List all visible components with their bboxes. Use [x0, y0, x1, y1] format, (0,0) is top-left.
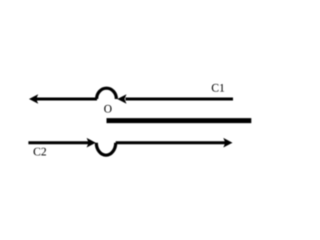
arrowhead: C2 right tip (points right)	[223, 138, 232, 148]
wire: contour C2 right segment	[116, 141, 226, 144]
arrowhead: C1 far-left tip (points left)	[29, 94, 38, 104]
arrowhead: C2 middle (points right, left of hop)	[87, 138, 96, 148]
wire: contour C2 left segment	[28, 141, 90, 144]
wire: contour C2 hop under rod end	[96, 143, 115, 155]
conductor: thick semi-infinite rod from O	[107, 118, 252, 123]
wire: contour C1 right segment	[126, 98, 234, 101]
label C2	[34, 148, 46, 156]
label C1	[212, 84, 224, 92]
wire: contour C1 hop over point O	[97, 88, 117, 99]
arrowhead: C1 middle (points left, right of hop)	[117, 94, 126, 104]
node O label	[104, 105, 111, 113]
wire: contour C1 left segment	[36, 98, 98, 101]
